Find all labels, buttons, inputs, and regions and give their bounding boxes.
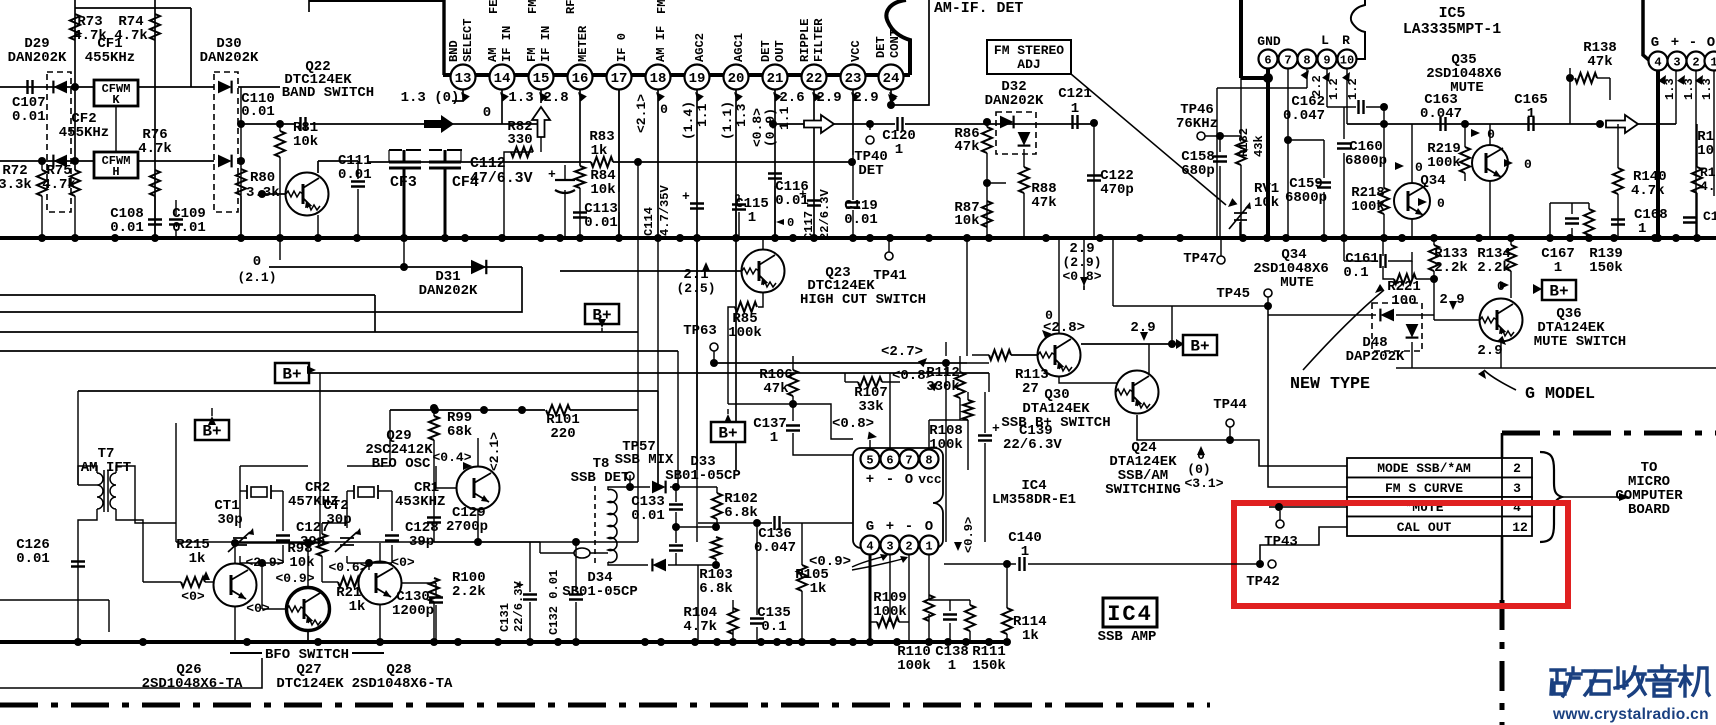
svg-text:+: + [548,167,556,182]
svg-text:21: 21 [767,71,784,87]
wire [929,419,968,421]
brace arrow [1562,496,1620,498]
wire [175,229,177,238]
capacitor C129x [427,518,441,523]
junction [38,157,46,165]
svg-text:vcc: vcc [918,472,942,487]
wire [116,509,143,582]
svg-text:1: 1 [1071,101,1079,117]
wire [905,123,1094,125]
wire D31 [269,266,522,268]
if wire [368,161,591,163]
resistor R98x [317,534,327,556]
svg-text:0: 0 [1415,160,1423,175]
wire [675,512,677,543]
IC5 pin 7 [1279,50,1298,69]
wire [1229,427,1231,440]
svg-text:0: 0 [660,102,668,117]
svg-text:<0.9>: <0.9> [962,517,976,553]
wire TP46 [1205,135,1241,137]
det out arrow [804,115,834,133]
svg-text:BOARD: BOARD [1628,502,1670,518]
junction [258,190,266,198]
svg-text:-: - [886,472,894,488]
wire [1588,235,1590,238]
svg-text:<0>: <0> [181,589,205,604]
resistor R82 [511,147,533,157]
svg-text:1k: 1k [1022,628,1039,644]
svg-text:IF IN: IF IN [500,26,514,62]
wire [801,523,803,565]
svg-text:3: 3 [1673,55,1680,69]
svg-text:47k: 47k [1587,54,1612,70]
wire [1510,238,1512,245]
bus junction [925,234,933,242]
wire [261,595,263,609]
svg-text:14: 14 [494,71,511,87]
svg-text:AM: AM [486,47,500,62]
wire [1216,88,1218,238]
wire pin18 down [657,238,659,487]
wire [1433,271,1435,320]
wire [792,356,794,370]
resistor R221x [1394,274,1416,284]
svg-text:13: 13 [455,71,472,87]
junction [1216,132,1224,140]
corner pin 1 [1705,52,1716,71]
bus junction [654,234,662,242]
bus junction [526,638,534,646]
wire [540,137,542,152]
wire [1416,278,1434,280]
junction [258,559,266,567]
wire [279,124,281,131]
capacitor C111 [351,182,365,187]
wire [460,150,462,162]
IC2 body right edge with notch [886,0,910,75]
wire [1411,261,1413,279]
svg-text:<0.4>: <0.4> [432,450,471,465]
svg-text:C112: C112 [470,156,506,172]
resistor R106x [788,370,798,396]
svg-text:www.crystalradio.cn: www.crystalradio.cn [1552,706,1709,723]
wire [1696,124,1698,167]
svg-text:B+: B+ [282,366,301,384]
wire [279,157,281,260]
arrowhead [1140,332,1148,341]
wire [735,195,737,238]
svg-text:100k: 100k [1427,155,1461,171]
svg-text:2.2k: 2.2k [452,584,486,600]
svg-text:C117: C117 [802,211,816,240]
IC5 pin row line [1260,58,1356,60]
bus junction [985,638,993,646]
svg-text:330: 330 [507,132,532,148]
wire [78,484,97,486]
top wire [75,7,191,9]
wire [888,238,890,252]
RV1 to bus [1239,222,1241,238]
bus junction [139,638,147,646]
capacitor C133x [669,505,683,510]
wire [379,543,381,561]
wire [1288,139,1324,141]
wire [697,565,699,642]
wire [1510,297,1512,299]
wire [402,582,436,584]
wire down to T8 [637,410,639,542]
bus junction [537,234,545,242]
svg-text:455KHz: 455KHz [85,50,135,66]
wire [357,189,359,238]
wire [738,195,740,202]
pin lead arrow [497,89,509,101]
svg-text:2: 2 [1513,461,1521,476]
svg-text:100k: 100k [897,658,931,674]
svg-text:C121: C121 [1058,86,1092,102]
wire [403,238,405,267]
svg-text:FE: FE [487,0,501,14]
corner IC body [1643,0,1650,61]
wire [1617,124,1619,168]
svg-text:DET: DET [759,40,773,62]
wire [240,490,247,492]
arrowhead [1471,129,1480,137]
audio wire [1347,123,1600,125]
bus junction [1585,234,1593,242]
capacitor C158 [1213,157,1227,162]
pin lead arrow [458,89,470,101]
svg-text:B+: B+ [1549,283,1568,301]
pin17 wire [618,90,620,238]
svg-text:FM: FM [655,0,669,14]
wire [436,487,456,489]
svg-text:AM IFT: AM IFT [81,460,131,476]
vertical wire [74,0,76,170]
dashed border right vertical [1501,433,1504,600]
resistor R76 [150,170,160,196]
wire [1549,203,1551,238]
resistor R140 [1613,168,1623,194]
vert wire [677,351,679,487]
wire CF2 row [0,160,94,162]
bus junction [1136,234,1144,242]
IC2 pin 23 [841,65,866,90]
svg-text:BAND SWITCH: BAND SWITCH [282,85,374,101]
wire R76 down [154,196,156,238]
svg-text:HIGH CUT SWITCH: HIGH CUT SWITCH [800,292,926,308]
wire Q24 collector [1148,344,1150,374]
svg-text:L: L [1321,33,1329,48]
svg-text:30p: 30p [326,512,351,528]
B+ symbol [275,363,309,383]
svg-text:4.7/35V: 4.7/35V [658,184,672,236]
wire pin4 gnd [869,554,872,642]
svg-text:DET: DET [858,163,883,179]
pin lead arrow [536,89,548,101]
wire vcc [889,373,891,450]
capacitor C130x [429,598,443,603]
wire [1028,563,1260,565]
pin lead arrow [731,89,743,101]
B+ rail [310,372,989,374]
test point TP42 [1268,560,1276,568]
junction [1566,74,1574,82]
wire [1343,107,1345,139]
bus junction [773,638,781,646]
long wire [78,390,658,392]
transformer T8 [574,486,617,564]
resistor R105x [797,565,807,591]
wire D48 [1268,314,1376,316]
wire [357,161,359,179]
top border wire [309,0,443,2]
arrowhead [1449,301,1457,310]
RV1 trimmer [1229,206,1248,229]
svg-text:G: G [866,519,874,535]
capacitor C117x [807,201,821,206]
junction [712,561,720,569]
arrowhead [307,366,316,374]
wire [713,351,715,363]
wire pin1 [928,554,930,600]
wire [782,522,853,524]
wire [756,627,758,642]
corner pin 3 [1668,52,1687,71]
junction [942,359,950,367]
wire [987,182,1006,184]
junction [231,539,239,547]
capacitor C135x [750,619,764,624]
capacitor C139x [978,436,992,441]
bus junction [430,638,438,646]
wire [434,541,638,543]
capacitor C109 [169,220,183,225]
wire [579,188,581,238]
IC4 pin 7 [900,450,919,469]
svg-text:FM: FM [525,47,539,62]
bus junction [886,234,894,242]
svg-text:453KHZ: 453KHZ [395,494,445,510]
B+ symbol [585,304,619,324]
wire [435,583,437,595]
svg-text:+: + [516,578,524,593]
wire [346,491,348,528]
svg-text:BFO OSC: BFO OSC [372,456,431,472]
arrow left0 [776,219,784,225]
wire [1219,166,1221,238]
bus junction [849,638,857,646]
bus junction [461,234,469,242]
bus junction [454,638,462,646]
wire [240,196,242,238]
junction [712,523,720,531]
svg-text:0.1: 0.1 [1343,265,1368,281]
wire Q23 collector [762,238,764,249]
wire [969,600,971,605]
diode D31 [471,260,486,274]
dashed border right top [1502,431,1716,436]
diode D29b [53,155,67,168]
watermark char shi [1583,671,1611,695]
wire R72 down [41,196,43,238]
svg-text:<0.8>: <0.8> [1062,269,1101,284]
wire [668,564,716,566]
audio out arrow [1606,115,1638,133]
wire [969,631,971,642]
wire [1489,181,1491,238]
B+ symbol [195,420,229,440]
svg-text:TP42: TP42 [1246,574,1280,590]
svg-text:17: 17 [611,71,628,87]
wire y306 [1113,305,1268,307]
svg-text:DET: DET [874,36,888,58]
bus junction [276,234,284,242]
test point TP41 [885,252,893,260]
wire [238,86,280,88]
wire [477,510,479,542]
pin21 wire [774,90,776,238]
svg-text:150k: 150k [972,658,1006,674]
IC5 pin7 wire [1287,68,1289,238]
svg-text:O: O [1707,35,1715,51]
pin24 arrow [885,91,897,103]
bus junction [314,638,322,646]
IC2 pin 14 [490,65,515,90]
arrowhead [724,414,732,423]
svg-text:SSB AMP: SSB AMP [1098,629,1157,645]
wire [1383,214,1385,238]
resistor R88 [1019,167,1029,193]
bus junction [1654,234,1662,242]
svg-text:16: 16 [572,71,589,87]
svg-text:2.9: 2.9 [1477,343,1502,359]
resistor R99x [429,416,439,440]
capacitor C168x [1611,220,1625,225]
svg-text:68k: 68k [447,424,472,440]
transformer T7 [97,470,116,512]
IC2 pin 24 [879,65,904,90]
svg-text:30p: 30p [217,512,242,528]
wire [282,491,284,531]
FM IF arrow [532,107,550,137]
wire [322,581,338,583]
wire [1569,68,1571,78]
svg-text:(0): (0) [1187,462,1210,477]
connector table [1347,458,1532,536]
wire [1638,123,1676,125]
top stub wire [308,0,310,12]
wire [138,160,214,162]
svg-text:K: K [112,93,120,107]
wire [1366,106,1384,108]
wire [899,621,909,623]
wire B+ drop [1171,306,1173,344]
bus junction [494,638,502,646]
wire [1006,564,1008,608]
wire bfo bottom [0,658,262,688]
wire [1617,194,1619,238]
wire [675,553,677,565]
IC4 big box [1103,598,1157,627]
arrowhead [918,355,930,367]
wire [504,152,533,238]
svg-text:6: 6 [886,453,893,467]
wire [967,392,969,400]
junction [1596,120,1604,128]
transistor Q34 [1394,183,1430,219]
wire [347,465,390,467]
transistor Q24 [1116,371,1159,414]
arrowhead [1039,327,1051,339]
arrowhead [1080,277,1088,286]
bus junction [893,638,901,646]
bus junction [1096,234,1104,242]
capacitor C131x [523,595,537,600]
wire [346,556,348,563]
bus junction [1672,234,1680,242]
capacitor C127x [276,536,290,541]
test point TP45 [1264,289,1272,297]
svg-text:TP44: TP44 [1213,397,1247,413]
svg-text:SELECT: SELECT [461,18,475,62]
wire [1217,87,1307,89]
wire [1696,193,1698,238]
dashed border bottom [0,703,1210,708]
IC2 pin 21 [763,65,788,90]
svg-text:20: 20 [728,71,745,87]
IC4 pin 8 [920,450,939,469]
IC2 pin 13 [451,65,476,90]
wire [1383,107,1385,188]
resistor R110x [877,617,899,627]
main ground bus [0,236,1716,240]
svg-text:<0.8>: <0.8> [832,416,874,432]
junction [304,539,312,547]
svg-text:R80: R80 [250,170,275,186]
junction [1275,503,1283,511]
svg-text:10: 10 [1697,143,1714,159]
capacitor C113x [573,213,587,218]
svg-text:6.8k: 6.8k [699,581,733,597]
bus junction [441,234,449,242]
wire [966,238,968,356]
arrowhead [1225,198,1237,210]
wire [433,440,435,542]
GND junction [1263,73,1273,83]
arrowhead [929,379,941,391]
bus junction [353,234,361,242]
IC5 pin10 wire [1346,68,1348,124]
IC4 pin 1b [920,536,939,555]
diode D32a [1000,116,1014,129]
trimmer CT2 [335,532,357,552]
wire [1083,238,1085,290]
resonator CR2 [251,487,267,497]
wire [756,523,758,615]
bus junction [1693,234,1701,242]
wire [1571,228,1573,238]
svg-text:19: 19 [689,71,706,87]
wire [435,466,437,488]
capacitor C126x [71,562,85,567]
pin lead arrow [692,89,704,101]
svg-text:SSB B+ SWITCH: SSB B+ SWITCH [1001,415,1110,431]
IC2 pin 19 [685,65,710,90]
svg-text:GND: GND [1257,34,1281,49]
wire [271,490,283,492]
svg-text:SSB DET: SSB DET [571,470,630,486]
